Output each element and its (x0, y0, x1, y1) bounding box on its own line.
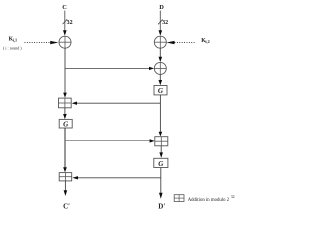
svg-text:G: G (63, 121, 69, 129)
wire adder A3 to output C' (64, 181, 68, 196)
adder A1 (mod 2^32 addition, left) (59, 98, 72, 108)
G-box G2 (left) (59, 119, 72, 128)
key K_i,1 label (9, 36, 18, 42)
node D' (output label) (158, 203, 165, 211)
svg-text:i,2: i,2 (205, 39, 209, 44)
svg-text:G: G (158, 160, 164, 168)
dotted wire K_i,2 to XOR X2 (166, 41, 194, 44)
node C (input label) (62, 4, 67, 11)
wire branch G3 output to adder A3 (right to left, y=177.8) (72, 176, 161, 179)
wire branch G1 output to adder A1 (right to left, y=103.2) (72, 102, 161, 105)
bus width slash 32 (left) (63, 19, 73, 26)
node D (input label) (159, 4, 164, 11)
wire adder A2 to G-box G3 (159, 146, 163, 158)
round note ( i : round ) (3, 46, 22, 51)
adder A3 (mod 2^32 addition, bottom left) (59, 173, 71, 181)
adder A2 (mod 2^32 addition, right) (155, 137, 168, 146)
svg-text:32: 32 (162, 20, 168, 26)
G-box G1 (right) (154, 86, 167, 96)
wire XOR X1 down to adder A1 (63, 48, 67, 97)
G-box G3 (right bottom) (154, 158, 168, 168)
wire XOR X2 to XOR X3 (159, 48, 163, 62)
svg-text:C: C (62, 4, 67, 11)
xor X3 (154, 62, 166, 74)
legend adder symbol (174, 195, 184, 202)
wire G3 down to output D' (with branch at y=177.8) (159, 168, 163, 199)
svg-text:C′: C′ (63, 202, 70, 210)
legend text Addition in modulo 2^32 (188, 195, 235, 203)
svg-text:G: G (158, 87, 164, 95)
svg-text:32: 32 (67, 20, 73, 26)
dotted wire K_i,1 to XOR X1 (25, 41, 59, 44)
wire adder A1 to G-box G2 (63, 108, 67, 119)
wire C to XOR X1 (63, 11, 67, 36)
svg-text:Addition in modulo 2: Addition in modulo 2 (188, 198, 230, 203)
wire D to XOR X2 (159, 11, 163, 36)
wire branch G2 output to adder A2 (left to right, y=140.5) (65, 139, 155, 142)
node C' (output label) (63, 202, 70, 210)
key K_i,2 label (201, 38, 210, 44)
svg-text:( i : round ): ( i : round ) (3, 46, 22, 51)
wire G1 down to adder A2 (with branch at y=103.2) (159, 95, 163, 137)
svg-text:D′: D′ (158, 203, 165, 211)
wire branch to XOR X3 (left to right, y=68.4) (65, 67, 154, 70)
xor X1 (C xor K_i,1) (59, 36, 71, 48)
svg-text:D: D (159, 4, 164, 11)
bus width slash 32 (right) (158, 20, 168, 27)
wire XOR X3 to G-box G1 (159, 74, 163, 85)
wire G2 down to adder A3 at bottom (with branch at y=140.5) (63, 128, 67, 172)
xor X2 (D xor K_i,2) (154, 36, 166, 48)
svg-text:32: 32 (231, 195, 235, 199)
svg-text:i,1: i,1 (13, 37, 17, 42)
